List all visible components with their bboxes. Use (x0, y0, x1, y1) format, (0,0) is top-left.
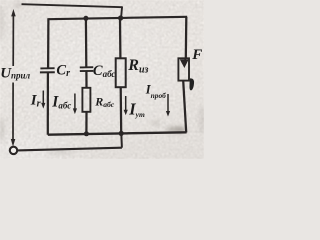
wire: branch 1 upper segment (47, 18, 50, 67)
current arrow Iprob (167, 94, 169, 112)
breakdown element F inner arrow (184, 58, 186, 61)
wire: branch 1 lower segment (47, 73, 49, 135)
junction dot top rail branch 2 (83, 16, 88, 21)
resistor Riz (116, 58, 126, 87)
wire: branch 3 lower segment (120, 87, 123, 133)
current arrow Ig (42, 91, 44, 104)
capacitor Cabs top plate (80, 66, 94, 68)
junction dot top rail feed (118, 15, 123, 20)
capacitor Cg bottom plate (40, 71, 55, 73)
wire: branch 2 lower segment (85, 112, 87, 134)
resistor Rabs (82, 88, 90, 112)
voltage arrow Upril lower segment (12, 83, 14, 140)
wire: inner bottom rail (48, 132, 187, 134)
svg-text:F: F (191, 47, 202, 63)
wire: branch 2 upper segment (85, 18, 88, 67)
voltage arrow Upril upper segment (12, 15, 14, 67)
junction dot bottom rail feed (119, 131, 124, 136)
current arrow Iabs (74, 94, 76, 110)
junction dot bottom rail branch 2 (84, 131, 89, 136)
wire: feed drop from outer top wire to top rail (121, 6, 122, 18)
capacitor Cabs bottom plate (80, 70, 94, 72)
wire: outer top feed wire (22, 4, 123, 7)
terminal circle bottom-left (10, 147, 17, 154)
wire: branch 2 middle segment (85, 71, 87, 88)
wire: branch 3 upper segment (119, 18, 122, 58)
wire: inner top rail (48, 17, 187, 19)
capacitor Cg top plate (40, 67, 54, 69)
breakdown element F box (178, 58, 189, 80)
current arrow Iut (125, 96, 127, 110)
wire: feed rise from outer bottom wire to bottom rail (120, 133, 123, 147)
wire: outer bottom wire (17, 148, 122, 151)
wire: branch 4 lower segment (183, 81, 186, 133)
wire: branch 4 upper segment (185, 17, 188, 58)
